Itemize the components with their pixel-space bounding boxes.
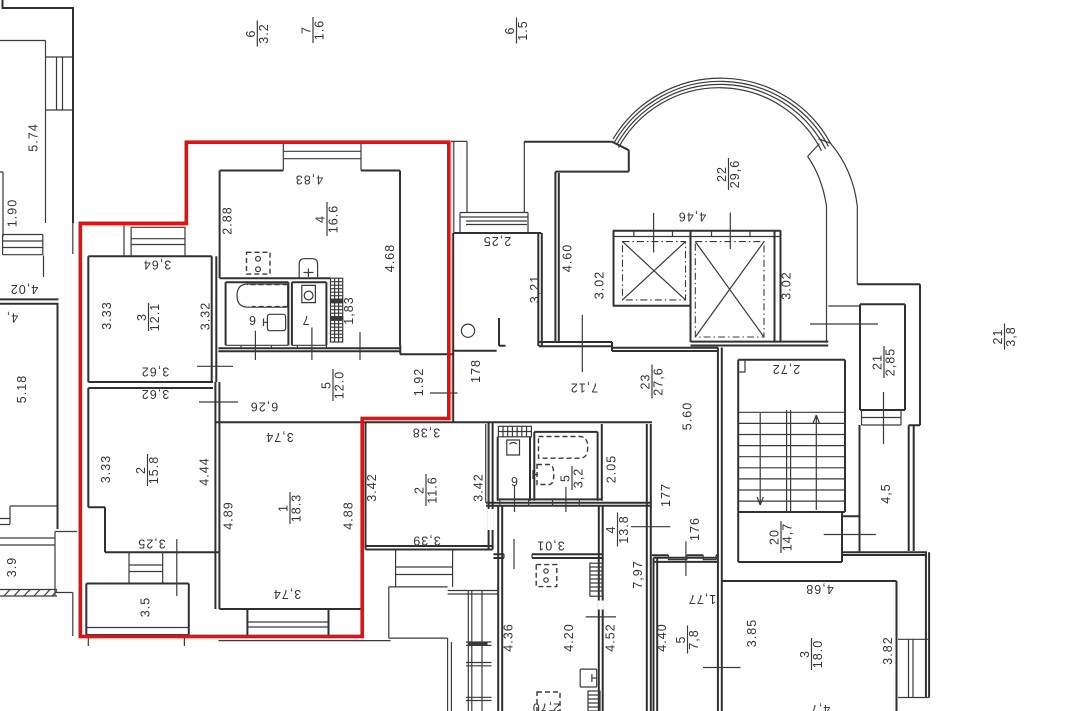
svg-text:3.02: 3.02 (593, 271, 607, 300)
bath 6n hatch (498, 426, 531, 437)
label 2/15.8 (134, 454, 161, 486)
room 5n walls (654, 558, 718, 711)
door thresholds baths (500, 499, 580, 505)
wall between 6 and 7 (291, 282, 293, 345)
room 2.70 east wall (599, 506, 603, 711)
svg-text:4.52: 4.52 (604, 623, 618, 652)
wall hall 3.01 south (493, 554, 602, 558)
door threshold hall (504, 554, 532, 558)
wall vestibule south (400, 345, 497, 354)
svg-text:21: 21 (991, 328, 1005, 344)
svg-text:4,7: 4,7 (810, 702, 831, 711)
stove dashed bottom edge (537, 692, 560, 711)
svg-text:2,72: 2,72 (772, 362, 801, 376)
room 3n box (722, 581, 897, 711)
wire tick 176 door (685, 541, 687, 576)
window neighbour top-left (3, 235, 43, 255)
svg-text:18.3: 18.3 (290, 494, 304, 523)
window room 3 (124, 223, 186, 256)
svg-text:4,68: 4,68 (805, 582, 834, 596)
svg-text:7,97: 7,97 (631, 560, 645, 589)
node circle O (461, 324, 474, 337)
room 2.70 west wall (498, 506, 502, 711)
bath 6n box (498, 437, 530, 501)
svg-text:3,74: 3,74 (265, 430, 294, 444)
wire leader 7.12 (581, 315, 583, 372)
wall corridor23 north-right (612, 348, 718, 351)
window room 1 (219, 622, 391, 641)
svg-text:3.5: 3.5 (139, 597, 153, 618)
window room 2n south (396, 550, 453, 587)
wall stairwell west (737, 360, 739, 562)
svg-text:177: 177 (659, 483, 673, 507)
svg-text:4.68: 4.68 (383, 244, 397, 273)
svg-text:4: 4 (604, 525, 618, 533)
arc pier outer (831, 144, 857, 284)
svg-text:2.05: 2.05 (605, 455, 619, 484)
svg-text:3,25: 3,25 (137, 537, 166, 551)
svg-text:2,70: 2,70 (532, 701, 561, 711)
wall outer east double (909, 425, 914, 551)
toilet room 6 (264, 314, 286, 330)
wall kitchen east double (647, 424, 651, 711)
stairs center stringer (787, 410, 791, 512)
svg-text:3.42: 3.42 (365, 473, 379, 502)
svg-text:5: 5 (559, 474, 573, 482)
elevator shaft 1 (623, 242, 686, 300)
svg-text:4.60: 4.60 (561, 244, 575, 273)
svg-text:3.85: 3.85 (745, 619, 759, 648)
svg-text:1.90: 1.90 (6, 199, 20, 228)
wire left edge stub (0, 172, 3, 237)
svg-text:7,12: 7,12 (570, 381, 599, 395)
label 3/18.0 (798, 638, 825, 670)
wall below lifts (691, 342, 829, 346)
svg-text:3,64: 3,64 (143, 258, 172, 272)
svg-text:22: 22 (715, 166, 729, 182)
wall room1 north (corridor south) (215, 421, 652, 423)
red apartment boundary (80, 142, 449, 636)
svg-text:3,38: 3,38 (412, 426, 441, 440)
svg-text:1: 1 (277, 504, 291, 512)
wall corridor west (rooms side) (215, 256, 219, 609)
hatch neighbour balcony (4, 590, 57, 597)
svg-text:3.33: 3.33 (99, 455, 113, 484)
svg-text:23: 23 (639, 373, 653, 389)
bathtub room 6 (237, 284, 288, 307)
svg-text:3.82: 3.82 (881, 636, 895, 665)
svg-text:18.0: 18.0 (811, 640, 825, 669)
wall long corridor east (718, 348, 722, 711)
svg-text:4.44: 4.44 (198, 457, 212, 486)
svg-text:5.60: 5.60 (681, 402, 695, 431)
svg-text:2,25: 2,25 (483, 234, 512, 248)
wall outer east lower (926, 552, 929, 697)
label 5/12.0 (320, 369, 347, 401)
svg-text:2: 2 (413, 486, 427, 494)
stairs arrow up (813, 415, 819, 510)
wall lobby south (539, 342, 612, 351)
wire tick room 3n (703, 667, 741, 669)
lift door tabs (613, 231, 781, 237)
svg-text:20: 20 (768, 529, 782, 545)
stairs arrow down (757, 413, 763, 505)
label 2/11.6 (413, 474, 440, 506)
window left wing (5.74 wall) (46, 57, 74, 110)
wall stairwell north (738, 359, 845, 361)
bay window west of 2.70 (389, 587, 498, 711)
svg-text:3,74: 3,74 (273, 587, 302, 601)
window vestibule bay (460, 213, 528, 234)
wire tick 3.01 (513, 539, 515, 569)
door band corridor south (652, 554, 718, 556)
arc balcony outer glazing (613, 78, 831, 144)
door room 2.70 east (598, 601, 604, 610)
wall lobby north-west (555, 142, 628, 342)
door tabs corridor south (669, 555, 717, 559)
svg-text:3,01: 3,01 (536, 539, 565, 553)
sink room 4 (299, 259, 317, 278)
svg-text:5: 5 (320, 381, 334, 389)
svg-text:1,77: 1,77 (688, 592, 717, 606)
wall niche east of red (451, 141, 524, 233)
svg-text:16.6: 16.6 (327, 205, 341, 234)
label 6/1.5 (503, 18, 530, 44)
wire tick 3.25 (176, 539, 178, 596)
label 21/3.8 (991, 324, 1018, 350)
toilet 5n (537, 465, 554, 485)
window outer east (898, 639, 929, 697)
svg-text:2.88: 2.88 (221, 206, 235, 235)
wire tick 2.70 door (586, 616, 616, 618)
svg-text:11.6: 11.6 (426, 476, 440, 504)
vestibule 2.25 box (453, 233, 542, 422)
stairs treads (738, 412, 845, 501)
svg-text:4: 4 (314, 215, 328, 223)
door thresholds under 6 and 7 (226, 345, 327, 348)
elevator shaft 2 (695, 242, 764, 337)
room 1 box (219, 609, 362, 635)
wire ticks lift dims (654, 213, 731, 253)
wire arc end cap (818, 139, 831, 144)
room 2 walls (88, 388, 219, 552)
balcony 3.5 box (86, 584, 189, 635)
label 3/12.1 (135, 303, 162, 332)
label 4/16.6 (314, 202, 341, 236)
wall below baths (486, 499, 651, 505)
svg-text:3: 3 (135, 313, 149, 321)
wall lift bank left (613, 230, 691, 342)
svg-text:29,6: 29,6 (728, 160, 742, 189)
svg-text:3.33: 3.33 (100, 301, 114, 330)
svg-text:3.02: 3.02 (780, 271, 794, 300)
arc balcony glazing lines (615, 81, 829, 150)
svg-text:4.20: 4.20 (562, 623, 576, 652)
svg-text:6: 6 (244, 29, 258, 37)
stove room 4 (247, 252, 271, 274)
vent shaft 2.70 (590, 563, 602, 596)
bathtub 5n (539, 437, 588, 459)
window room 4 (283, 142, 361, 171)
svg-text:3,21: 3,21 (528, 275, 542, 304)
svg-text:6: 6 (503, 26, 517, 34)
sink room 2.70 (580, 669, 597, 687)
svg-text:2: 2 (134, 466, 148, 474)
wire tick 14.7 (824, 534, 876, 536)
room 4 box (220, 171, 400, 346)
svg-text:3: 3 (798, 650, 812, 658)
wall neighbour balcony left (0, 532, 77, 597)
svg-text:4.89: 4.89 (222, 501, 236, 530)
bay pier blocks (468, 642, 488, 645)
svg-text:3,62: 3,62 (141, 365, 170, 379)
wall east of stairs (842, 425, 860, 552)
svg-text:15.8: 15.8 (147, 456, 161, 485)
wall corridor23 north-east stub (828, 305, 860, 307)
wall lift bank top (613, 230, 781, 232)
svg-text:3.2: 3.2 (257, 23, 271, 44)
svg-text:7: 7 (300, 26, 314, 34)
arc pier inner (808, 156, 827, 341)
svg-text:4.40: 4.40 (655, 623, 669, 652)
svg-text:6: 6 (510, 474, 518, 488)
room 7 box (292, 282, 327, 345)
wire arc jog (808, 144, 820, 157)
wire leader room 7 (312, 327, 360, 360)
label 4/13.8 (604, 513, 631, 547)
wall hook vestibule (499, 318, 506, 346)
wall neighbour lower room corner (0, 506, 58, 525)
bath 5n box (534, 424, 602, 501)
balcony 3.5 front edge (86, 628, 189, 635)
svg-text:1.5: 1.5 (516, 20, 530, 41)
wall neighbour west room (0, 299, 59, 529)
svg-text:12.0: 12.0 (333, 371, 347, 400)
svg-text:3,39: 3,39 (412, 534, 441, 548)
svg-text:6: 6 (248, 313, 256, 327)
svg-text:178: 178 (469, 359, 483, 383)
label 6/3.2 (244, 21, 271, 47)
wall stub under red top-left (72, 223, 74, 254)
window loggia 21 (862, 410, 902, 425)
room 2n box (366, 422, 493, 549)
svg-text:4,5: 4,5 (879, 483, 893, 504)
label 20/14.7 (768, 521, 795, 553)
svg-text:4.36: 4.36 (502, 623, 516, 652)
wall left wing west face (0, 41, 46, 224)
label 22/29.6 (715, 158, 742, 190)
svg-text:4,46: 4,46 (678, 210, 707, 224)
svg-text:1,83: 1,83 (342, 296, 356, 325)
sink bath 6n (507, 440, 520, 455)
svg-text:5: 5 (674, 635, 688, 643)
door room 2n east (488, 509, 494, 530)
stove room 2.70 (536, 565, 557, 587)
bath room 6 box (226, 282, 289, 345)
svg-text:3,2: 3,2 (572, 468, 586, 489)
wall top-left wing outline (3, 0, 74, 223)
svg-text:2,85: 2,85 (884, 348, 898, 377)
node tick 4.02 (43, 256, 45, 278)
svg-text:3.42: 3.42 (472, 473, 486, 502)
sink room 7 (302, 285, 316, 302)
svg-text:3,8: 3,8 (1004, 326, 1018, 347)
svg-text:14,7: 14,7 (781, 523, 795, 552)
svg-text:13.8: 13.8 (617, 515, 631, 544)
node ticks 3.62 (197, 366, 238, 402)
wall inner corner below red bottom-left (55, 593, 73, 637)
label 5/3.2 (559, 466, 586, 490)
loggia 21 box (860, 304, 905, 410)
svg-text:4,: 4, (6, 311, 19, 325)
wire leader room 6 (254, 331, 256, 360)
svg-text:27,6: 27,6 (652, 367, 666, 396)
svg-text:1.6: 1.6 (313, 20, 327, 41)
wire leaders 6n 5n (515, 485, 566, 512)
wire tick 1.92 (430, 392, 458, 394)
svg-text:4,02: 4,02 (10, 282, 39, 296)
svg-text:4.88: 4.88 (342, 501, 356, 530)
wall below bath block (218, 348, 400, 351)
svg-text:7: 7 (301, 313, 309, 327)
label 21/2.85 (871, 346, 898, 378)
svg-text:3.32: 3.32 (199, 302, 213, 331)
node ticks on red bottom (88, 637, 184, 646)
svg-text:3,62: 3,62 (141, 387, 170, 401)
room 3 box (88, 256, 211, 382)
label 23/27.6 (639, 365, 666, 399)
svg-text:5.74: 5.74 (27, 123, 41, 152)
svg-text:12.1: 12.1 (148, 303, 162, 332)
vent shaft bottom edge (588, 691, 600, 711)
wall outer band top centre (524, 141, 612, 143)
wall between room 3 and room 2 (88, 382, 213, 388)
door tab stairwell (738, 360, 745, 372)
wire tick 13.8 (631, 526, 670, 528)
svg-text:7,8: 7,8 (687, 629, 701, 650)
wire tick 2.85 (810, 324, 884, 444)
svg-text:176: 176 (688, 517, 702, 541)
svg-text:21: 21 (871, 354, 885, 370)
svg-text:5.18: 5.18 (15, 375, 29, 404)
svg-text:1.92: 1.92 (412, 368, 426, 397)
svg-text:3.9: 3.9 (5, 557, 19, 578)
wall lift bank right (775, 230, 781, 341)
svg-text:4,83: 4,83 (295, 173, 324, 187)
window room 2 balcony door (129, 552, 163, 583)
vent shaft hatched (331, 278, 343, 342)
wall outer stair south (842, 552, 927, 555)
wall outer north-east (857, 284, 920, 425)
label 1/18.3 (277, 492, 304, 524)
label 7/1.6 (300, 17, 327, 43)
stairs landing box (738, 360, 845, 562)
label 5/7.8 (674, 626, 701, 654)
svg-text:6,26: 6,26 (250, 400, 279, 414)
wall west of bath 6n (486, 424, 489, 503)
